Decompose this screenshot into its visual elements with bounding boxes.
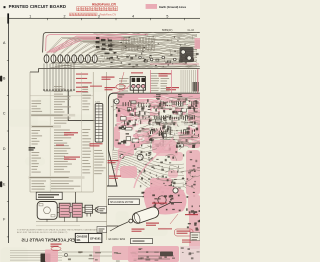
svg-text:NO.: NO. bbox=[77, 239, 82, 242]
svg-text:4: 4 bbox=[132, 14, 134, 18]
svg-text:PRINTED CIRCUIT BOARD: PRINTED CIRCUIT BOARD bbox=[9, 4, 67, 9]
svg-text:REPLACEMENT PARTS LIS: REPLACEMENT PARTS LIS bbox=[21, 237, 78, 242]
svg-text:1: 1 bbox=[29, 14, 31, 18]
svg-text:D: D bbox=[3, 147, 6, 151]
svg-text:C-01: C-01 bbox=[95, 101, 101, 103]
svg-text:GF-9191 / 9292: GF-9191 / 9292 bbox=[108, 238, 125, 241]
svg-text:CL-03: CL-03 bbox=[188, 30, 195, 32]
svg-text:3: 3 bbox=[98, 14, 100, 18]
svg-text:RadioFans.CN: RadioFans.CN bbox=[100, 14, 117, 17]
svg-text:C: C bbox=[3, 112, 6, 116]
svg-text:GF-9191: GF-9191 bbox=[90, 236, 101, 240]
svg-text:5: 5 bbox=[166, 14, 168, 18]
svg-text:RadioFans.CN: RadioFans.CN bbox=[92, 2, 116, 6]
svg-text:2: 2 bbox=[64, 14, 66, 18]
svg-text:★ W REPLACEMENT PARTS LIST (PA: ★ W REPLACEMENT PARTS LIST (PAGE 30-32) … bbox=[17, 228, 106, 231]
svg-text:ALSO FOR THE MODEL GF-9191 / G: ALSO FOR THE MODEL GF-9191 / GF-9292 (PA… bbox=[17, 231, 68, 234]
svg-text:SHAN-DRIVE MOTOR: SHAN-DRIVE MOTOR bbox=[110, 201, 134, 204]
svg-text:Earth (Ground) Lines: Earth (Ground) Lines bbox=[159, 5, 186, 9]
svg-text:5R5M(AT): 5R5M(AT) bbox=[162, 29, 173, 32]
